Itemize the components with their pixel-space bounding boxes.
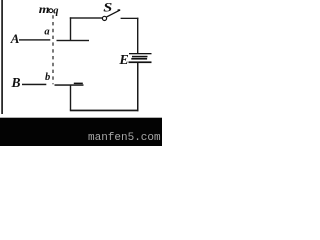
plate B left section [22,84,46,86]
wire: plate B down to bottom wire [70,85,71,110]
battery long plate 1 [129,53,152,54]
switch hinge circle [102,16,106,20]
svg-text:E: E [118,53,128,68]
battery long plate 2 [129,61,152,63]
svg-text:S: S [103,1,112,15]
svg-text:a: a [44,27,49,38]
wire: right side upper (to battery) [137,18,138,54]
black footer bar [0,118,162,146]
svg-text:q: q [53,5,58,16]
plate A right section [57,40,90,41]
left border frame line [1,0,3,114]
svg-text:b: b [45,72,50,83]
wire: right side lower (battery to bottom) [137,63,139,111]
battery short plate 2 [131,58,147,60]
ball (charged sphere) [49,9,53,13]
svg-text:A: A [10,31,20,46]
wire: top horizontal to switch [70,17,103,18]
battery short plate 1 [132,56,148,58]
wire: bottom horizontal [70,110,139,112]
plate A left section [19,39,50,40]
svg-text:m: m [39,2,50,16]
wire: plate A up to switch [70,17,71,41]
plate B right section [55,84,84,86]
svg-text:manfen5.com: manfen5.com [88,132,161,144]
switch lever tip [118,9,121,11]
wire after switch [121,18,139,19]
svg-text:B: B [11,75,21,90]
switch lever [107,10,120,17]
plate B scan artifact dash [74,83,83,85]
trajectory dashed line [52,15,54,84]
